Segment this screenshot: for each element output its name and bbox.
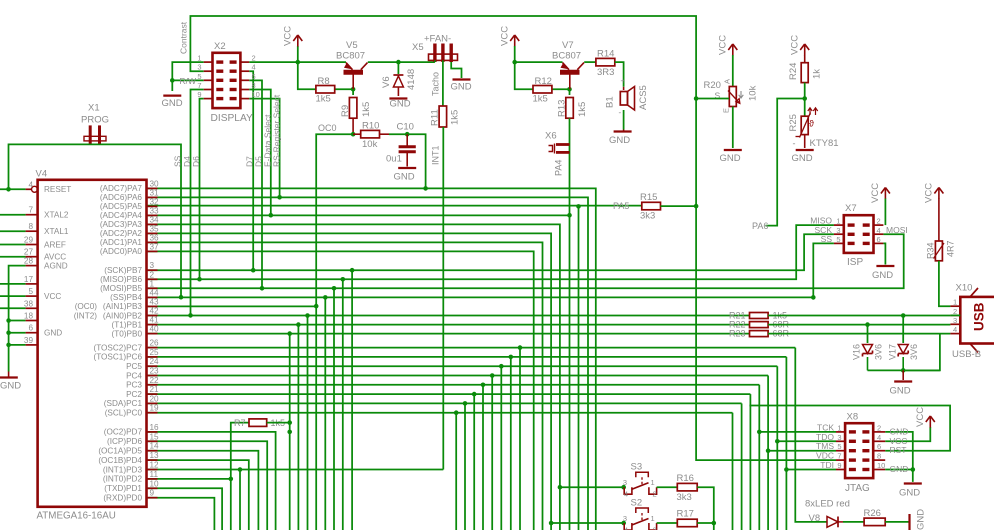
resistor R14 3R3 [596,49,615,79]
svg-text:PA6: PA6 [752,221,768,231]
svg-text:(TXD)PD1: (TXD)PD1 [104,484,142,493]
wire JTAG.10 [885,469,913,471]
svg-text:RESET: RESET [44,185,71,194]
svg-text:PC4: PC4 [126,371,142,380]
svg-text:R15: R15 [640,192,657,203]
svg-text:MOSI: MOSI [886,225,908,235]
svg-text:(AIN1)PB3: (AIN1)PB3 [103,302,143,311]
svg-text:(SS)PB4: (SS)PB4 [110,293,142,302]
svg-text:12: 12 [150,461,160,470]
ground V6 GND [389,99,410,110]
svg-text:GND: GND [872,270,893,281]
svg-text:GND: GND [720,153,741,164]
wire TMS (PC4) to JTAG.5 [768,450,836,452]
junction E-Data [269,213,274,218]
junction TMS [766,448,771,453]
svg-text:2: 2 [877,423,881,432]
junction R7/PB0 [287,420,292,425]
power VCC near X2 [283,26,303,47]
svg-text:2: 2 [877,217,881,226]
wire S2 to R17 [657,522,678,524]
resistor R9 1k5 [340,98,372,135]
wire Contrast net (X2.3 to R20/R15/JTAG VDC) [190,16,836,460]
svg-text:4R7: 4R7 [946,240,956,257]
junction V16 [865,322,870,327]
svg-text:10: 10 [877,461,885,470]
resistor R24 1k [788,63,823,83]
ground X2 GND [162,96,183,109]
svg-text:6: 6 [877,235,881,244]
svg-text:R10: R10 [362,121,379,132]
connector X6 [545,131,570,177]
junction S3 in [621,485,626,490]
wire Tacho X5.2 to R11 [431,60,443,106]
svg-text:1k5: 1k5 [577,102,588,117]
pin prefix labels OC0 INT2 [74,302,97,320]
wire zener GND rail [868,369,940,371]
svg-text:+FAN-: +FAN- [424,34,451,45]
svg-text:X1: X1 [88,103,100,114]
svg-text:R23: R23 [729,329,746,339]
junction OC0 at PA7 [423,186,428,191]
svg-text:GND: GND [390,99,411,110]
svg-text:S3: S3 [631,462,643,473]
svg-text:7: 7 [28,206,33,215]
ground R25 GND [792,150,814,164]
svg-text:-: - [619,108,622,117]
junction D7 [251,268,256,273]
svg-text:3k3: 3k3 [640,211,655,222]
wire RS-Register Select (X2.10 to PA6) [249,99,279,198]
connector X5 +FAN- [412,34,458,63]
svg-text:GND: GND [899,488,920,499]
svg-text:INT1: INT1 [431,145,441,165]
svg-text:GND: GND [44,329,62,338]
svg-text:22: 22 [150,376,160,385]
svg-text:E: E [722,108,731,113]
junction S2 feed at PA2 [549,521,554,526]
ground LED GND rail [910,509,927,530]
svg-text:PA4: PA4 [554,160,564,176]
ground R20 GND [720,150,742,164]
svg-text:15: 15 [150,432,160,441]
svg-text:1: 1 [651,478,655,487]
svg-text:VCC: VCC [283,26,294,46]
svg-text:1: 1 [197,54,201,63]
wire OC0 (PB3 net riser) [316,123,353,530]
junction V5 base/R8/R9 [351,87,356,92]
svg-text:PA5: PA5 [613,201,629,211]
svg-text:28: 28 [24,257,34,266]
svg-text:(OC2)PD7: (OC2)PD7 [104,428,143,437]
svg-text:(OC1B)PD4: (OC1B)PD4 [98,456,142,465]
svg-text:V16: V16 [852,344,862,360]
svg-text:3V6: 3V6 [909,344,919,360]
svg-text:3: 3 [623,514,627,523]
wire D7 (X2.4 to PB7) [249,71,253,270]
wire PB1 row to R22 [147,324,750,326]
svg-text:3R3: 3R3 [597,67,614,78]
svg-text:C10: C10 [397,122,414,133]
svg-text:(ADC5)PA5: (ADC5)PA5 [100,202,143,211]
svg-text:Contrast: Contrast [179,21,189,54]
junction D6 [197,277,202,282]
svg-text:R14: R14 [597,49,614,60]
svg-text:43: 43 [150,297,160,306]
svg-text:AVCC: AVCC [44,253,66,262]
wire PA0 row [147,251,534,530]
svg-text:9: 9 [150,489,155,498]
svg-text:R12: R12 [535,76,552,87]
svg-text:VCC: VCC [924,183,935,203]
wire X2.1 to GND [172,62,203,91]
svg-text:(SDA)PC1: (SDA)PC1 [104,399,143,408]
svg-text:8: 8 [28,222,33,231]
svg-text:38: 38 [24,299,34,308]
svg-text:2: 2 [653,490,657,499]
wire PB0 row to R23 [147,333,750,335]
svg-text:34: 34 [150,215,160,224]
svg-text:+: + [621,77,626,86]
power VCC near R24 [790,35,810,63]
svg-text:(MISO)PB6: (MISO)PB6 [100,275,142,284]
svg-text:V6: V6 [381,76,392,88]
svg-text:XTAL2: XTAL2 [44,211,69,220]
wire R23 to USB.4 [768,333,950,335]
svg-text:(RXD)PD0: (RXD)PD0 [103,494,142,503]
svg-text:V7: V7 [562,40,574,51]
svg-text:V17: V17 [888,344,898,360]
svg-text:(TOSC2)PC7: (TOSC2)PC7 [93,343,142,352]
power VCC near R20 [718,35,738,56]
svg-text:42: 42 [150,307,160,316]
svg-text:R8: R8 [318,76,330,87]
wire S2 feed from PA2 drop [551,522,624,524]
svg-text:(ADC1)PA1: (ADC1)PA1 [100,238,143,247]
svg-text:GND: GND [394,172,415,183]
svg-text:30: 30 [150,179,160,188]
svg-text:Tacho: Tacho [431,72,441,96]
junction V17 [901,313,906,318]
svg-text:X5: X5 [412,42,424,53]
wire GND pins 18/6/39 [9,321,26,345]
junction PD3 drop [238,467,243,472]
svg-text:PC3: PC3 [126,381,142,390]
wire PA2 row [147,233,552,530]
ground X5 GND [451,80,472,93]
wire PB2 row to R21 [147,315,750,317]
svg-text:7: 7 [197,81,201,90]
wire PB6 row to ISP MISO [147,225,834,279]
svg-text:GND: GND [792,153,813,164]
resistor R21 1k5 [729,311,787,321]
wire RST from JTAG.6 [749,406,950,451]
ground B1 GND [609,110,632,146]
svg-text:31: 31 [150,188,160,197]
wire V7 base to R12 [515,62,570,95]
junction PD2 at R7 riser [229,477,234,482]
svg-text:35: 35 [150,224,160,233]
junction D4 [188,313,193,318]
svg-text:17: 17 [24,275,34,284]
wire TDI (PC6) to JTAG.9 [786,469,836,471]
wire R34 to USB.1 [939,261,951,306]
junction TCK [757,430,762,435]
svg-text:2: 2 [150,270,155,279]
junction S2 in [621,521,626,526]
svg-text:GND: GND [0,381,21,392]
svg-text:VCC: VCC [790,35,801,55]
svg-text:1k5: 1k5 [533,94,548,105]
svg-text:25: 25 [150,348,160,357]
svg-text:2: 2 [252,54,256,63]
svg-text:VCC: VCC [915,407,926,427]
svg-text:BC807: BC807 [336,51,365,62]
wire E-Data Select (X2.8 to PA4) [249,90,271,216]
transistor V7 BC807 [552,40,584,89]
wire PB7 row to ISP SCK [147,234,834,270]
transistor V5 BC807 [336,40,368,89]
wire JTAG.2/10 to GND [885,432,913,482]
svg-text:V8: V8 [809,513,821,524]
svg-text:1: 1 [651,514,655,523]
zener V16 3V6 [852,325,884,371]
resistor R34 4R7 [926,240,956,260]
switch S3 [623,462,657,499]
wire PC rows with mid and right drops [147,348,828,530]
pin names and numbers V4 left side [24,180,71,345]
resistor R23 68R [729,329,790,339]
svg-text:(AIN0)PB2: (AIN0)PB2 [103,311,143,320]
svg-text:VCC: VCC [870,183,881,203]
svg-text:V4: V4 [36,169,48,180]
wire R17 out [697,522,714,524]
capacitor C10 0u1 [386,122,416,167]
svg-text:9: 9 [837,461,841,470]
sensor R25 KTY81 [788,108,839,149]
junction R24/R25/PA6 [802,96,807,101]
junction D5 [260,286,265,291]
svg-text:(T0)PB0: (T0)PB0 [112,329,143,338]
junction R7 at PB0 drop [287,430,292,435]
svg-text:23: 23 [150,367,160,376]
wire PD2 row to R7 riser [147,478,231,480]
svg-text:(T1)PB1: (T1)PB1 [112,320,143,329]
svg-text:1k5: 1k5 [450,110,461,125]
resistor R10 10k [353,121,407,151]
svg-text:R9: R9 [340,105,351,117]
ground USB GND [890,370,913,396]
svg-text:X7: X7 [845,203,857,214]
junction C10 top [405,132,410,137]
svg-text:AREF: AREF [44,240,66,249]
connector X10 USB-B [950,283,994,361]
svg-text:8: 8 [252,81,256,90]
svg-text:R13: R13 [557,100,568,117]
wire AREF [0,244,26,246]
svg-text:X6: X6 [545,131,557,142]
svg-text:9: 9 [197,90,201,99]
svg-text:(ADC7)PA7: (ADC7)PA7 [100,184,143,193]
junction RESET [6,187,11,192]
wire PD1 row with drop [147,488,223,530]
svg-text:R34: R34 [926,242,936,259]
svg-text:USB-B: USB-B [952,349,981,360]
svg-text:A: A [723,79,732,84]
junction X6 at PA4 [567,213,572,218]
svg-text:(ADC6)PA6: (ADC6)PA6 [100,193,143,202]
svg-text:27: 27 [24,248,34,257]
junction TDO [775,439,780,444]
svg-text:(SCK)PB7: (SCK)PB7 [104,266,142,275]
svg-text:X2: X2 [214,41,226,52]
led V8 8xLED red [805,499,850,528]
connector X2 DISPLAY [179,41,259,124]
wire D6 (X2.9 to PB6) [200,99,204,280]
svg-text:32: 32 [150,197,160,206]
svg-text:GND: GND [890,464,909,474]
wire V8 to R26 [843,521,864,523]
wire AVCC [0,256,26,258]
svg-text:VCC: VCC [500,26,511,46]
svg-text:B1: B1 [605,96,616,108]
svg-text:(OC0): (OC0) [75,302,98,311]
junction VCC V5 [296,60,301,65]
resistor R17 3k3 [677,509,698,527]
resistor R16 3k3 [677,473,698,503]
junction R16/R17 out [712,521,717,526]
svg-text:10: 10 [252,90,260,99]
wire R20 wiper S [696,98,729,100]
junction SS at PB4 [179,295,184,300]
svg-text:3: 3 [836,226,840,235]
svg-text:(TOSC1)PC6: (TOSC1)PC6 [93,353,142,362]
svg-text:1: 1 [837,423,841,432]
wire X6/R13 to PA4 and PA4 drop [569,118,571,530]
wire PA7 row [147,188,596,530]
wire R22 to USB.3 [768,324,950,326]
svg-text:JTAG: JTAG [845,483,870,494]
resistor R11 1k5 [430,106,461,127]
svg-text:-: - [793,139,796,149]
wire PA5 to R15 [147,201,642,211]
svg-text:D6: D6 [191,156,201,167]
wire RESET / X1 / SS net [0,144,181,297]
svg-text:R20: R20 [704,80,721,91]
svg-text:USB: USB [972,302,987,331]
wire PA3 row [147,224,560,530]
wire X5.3 to GND [451,62,461,78]
junction SS/PB4 [811,295,816,300]
svg-text:ATMEGA16-16AU: ATMEGA16-16AU [37,511,116,522]
resistor R13 1k5 [557,98,589,119]
svg-text:4: 4 [877,433,881,442]
wire V5 collector to V6/X5 [368,61,435,63]
resistor R15 3k3 [640,192,661,222]
junction Contrast/R20 [694,96,699,101]
wire XTAL1 [0,230,26,232]
resistor R26 1k5 [864,508,886,526]
svg-text:R17: R17 [677,509,694,520]
svg-text:3: 3 [953,316,957,325]
wire VCC pins 17/5/38 [0,284,26,308]
svg-text:3k3: 3k3 [677,492,692,503]
wire R7 riser [231,423,249,530]
resistor R22 68R [729,320,790,330]
wire R14 to B1 [615,62,624,87]
svg-text:1k5: 1k5 [316,94,331,105]
wire R15 to Contrast net [661,205,697,207]
svg-text:24: 24 [150,357,160,366]
svg-text:6: 6 [252,72,256,81]
svg-text:RS-Register Select: RS-Register Select [272,94,282,167]
junction GND pins [6,318,11,347]
svg-text:14: 14 [150,442,160,451]
pin names and numbers V4 right side [93,179,159,502]
svg-text:(ADC2)PA2: (ADC2)PA2 [100,229,143,238]
svg-text:AGND: AGND [44,261,68,270]
wire ISP.6 to GND [883,243,885,264]
connector X8 JTAG [816,412,908,495]
svg-text:4: 4 [28,180,33,189]
svg-text:RST: RST [890,445,907,455]
junction R/W GND [170,78,175,83]
wire PB drops [290,270,352,530]
svg-text:37: 37 [150,242,160,251]
junction OC0 at PB3 [314,304,319,309]
ground JTAG GND [899,484,922,499]
svg-text:R26: R26 [864,508,881,519]
wire VCC to V5 emitter and X2.2 [249,46,346,62]
junction VCC V7 [512,60,517,65]
svg-text:(INT2): (INT2) [74,311,97,320]
svg-text:3: 3 [623,478,627,487]
svg-text:SS: SS [173,155,183,167]
net labels near X2 [173,21,282,167]
wire PB3 row [147,305,317,307]
svg-text:4: 4 [624,490,628,499]
wire V7 collector to R14 [584,61,596,63]
ground ISP GND [872,266,894,281]
resistor R12 1k5 [533,76,552,105]
wire USB.2 [950,314,960,316]
ground C10 GND [394,168,417,183]
mcu V4 ATMEGA16-16AU [36,169,147,522]
svg-text:29: 29 [24,236,34,245]
junction RS [277,195,282,200]
svg-text:41: 41 [150,316,160,325]
resistor R8 1k5 [316,76,335,105]
wire R24 to R25/PA6 [752,83,805,231]
svg-text:R16: R16 [677,473,694,484]
svg-text:ISP: ISP [847,257,863,268]
svg-text:R/W: R/W [179,76,196,86]
svg-text:16: 16 [150,423,160,432]
wire R7 to PB0 drop [267,422,290,424]
svg-text:PC2: PC2 [126,390,142,399]
wire VCC to V7 emitter [515,61,563,63]
wire AGND to GND [9,266,26,372]
svg-text:XTAL1: XTAL1 [44,227,69,236]
wire PA4 row [147,214,570,216]
svg-text:(ICP)PD6: (ICP)PD6 [107,437,142,446]
svg-text:GND: GND [451,82,472,93]
junction JTAG GND [911,467,916,472]
svg-text:GND: GND [890,386,911,397]
wire S3 to R16 [657,486,678,488]
wire PD7-PD4 rows with drops [147,432,276,530]
wire PA1 row [147,242,543,530]
